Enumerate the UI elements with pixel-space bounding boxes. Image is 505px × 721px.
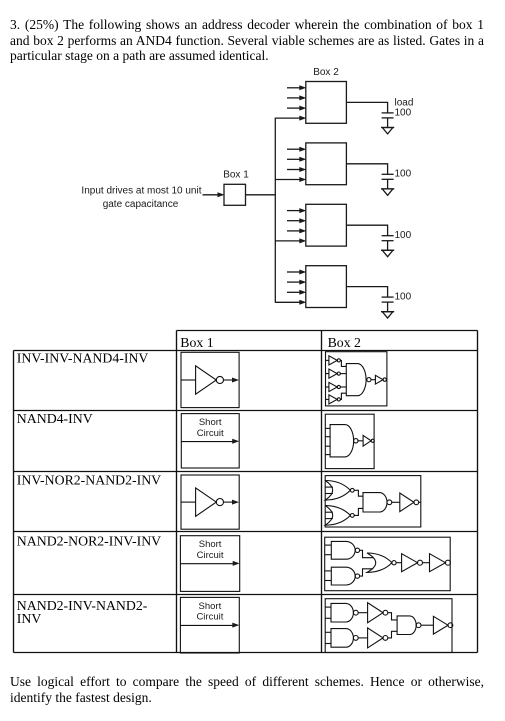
svg-text:Short: Short — [199, 539, 222, 550]
input stubs NAND2 bottom row4 — [325, 571, 332, 581]
row label INV-INV-NAND4-INV — [17, 350, 149, 365]
wire bus branch into unit 3 — [275, 238, 306, 243]
wire capacitor to ground unit 4 — [387, 302, 389, 312]
box B2 unit 2 — [306, 143, 347, 185]
ground symbol unit 1 — [381, 128, 394, 134]
wire NAND2 top to inverter top row5 — [358, 612, 367, 614]
inverter input 3 row1 — [326, 382, 341, 391]
wire input stub 3 of unit 2 — [287, 167, 306, 172]
svg-text:INV-INV-NAND4-INV: INV-INV-NAND4-INV — [17, 350, 149, 365]
inverter input 1 row1 — [326, 356, 341, 365]
wire NAND2 to inverter row3 — [392, 501, 400, 503]
inverter in row3 Box1 (INV) — [181, 488, 239, 516]
wire bus branch into unit 1 — [275, 116, 306, 121]
wire NAND2 top to NOR2 row4 — [360, 550, 374, 557]
input stubs NAND4 row2 — [325, 428, 330, 454]
svg-text:100: 100 — [395, 292, 412, 303]
box B2 unit 1 — [306, 82, 347, 124]
wire inv3 to NAND4 row1 — [340, 386, 346, 388]
inner box row2 Box2 — [325, 414, 374, 468]
NAND2 gate top row5 — [331, 603, 358, 622]
wire NAND2 bottom to NOR2 row4 — [360, 569, 374, 576]
wire short-circuit arrow in row5 Box1 (short circuit) — [180, 623, 239, 628]
svg-text:INV: INV — [17, 611, 42, 626]
label Short Circuit in row4 Box1 (short circuit) — [197, 539, 224, 561]
output inverter row2 — [363, 435, 374, 446]
wire inverter1 to inverter2 row4 — [423, 562, 430, 564]
input stubs NAND2 top row4 — [325, 545, 332, 555]
ground symbol unit 4 — [381, 312, 394, 318]
wire inverter bottom to output NAND2 row5 — [388, 631, 397, 638]
svg-text:Box 2: Box 2 — [328, 335, 361, 350]
bottom paragraph — [10, 674, 484, 705]
wire inverter top to output NAND2 row5 — [388, 613, 397, 620]
wire output of unit 1 to load — [346, 102, 387, 112]
value label 100 unit 2 — [395, 169, 412, 180]
label input drive note — [81, 185, 201, 210]
output inverter row3 — [400, 493, 421, 512]
svg-text:100: 100 — [395, 169, 412, 180]
wire capacitor to ground unit 3 — [387, 241, 389, 251]
box B1 — [224, 184, 246, 205]
wire NAND4 to output inverter row1 — [371, 379, 375, 381]
value label 100 unit 1 — [395, 107, 412, 118]
wire capacitor to ground unit 1 — [387, 118, 389, 128]
NAND4 gate row2 — [330, 425, 358, 457]
box B2 unit 4 — [306, 266, 347, 308]
wire input stub 2 of unit 4 — [287, 280, 306, 285]
wire NOR2 to inverter1 row4 — [396, 562, 402, 564]
wire NOR2 bottom to NAND2 row3 — [354, 508, 363, 515]
svg-text:Circuit: Circuit — [197, 550, 224, 561]
svg-text:Circuit: Circuit — [197, 428, 224, 439]
value label 100 unit 3 — [395, 230, 412, 241]
ground symbol unit 2 — [381, 189, 394, 195]
row label NAND2-INV-NAND2- — [17, 598, 148, 626]
inverter1 row4 — [402, 554, 423, 572]
input stubs NAND2 top row5 — [325, 607, 331, 618]
wire Box1 output to bus — [246, 194, 276, 196]
wire input stub 1 of unit 4 — [287, 270, 306, 275]
svg-text:Box 2: Box 2 — [313, 67, 339, 78]
inner box row2 Box1 (short circuit) — [181, 414, 239, 468]
input stubs NOR2 bottom row3 — [325, 512, 333, 518]
value label load — [395, 97, 414, 108]
inner box row4 Box2 — [325, 537, 451, 591]
inner box row5 Box2 — [325, 599, 452, 653]
svg-text:Short: Short — [199, 417, 222, 428]
svg-text:100: 100 — [395, 230, 412, 241]
label Box 1 — [223, 170, 249, 181]
NAND2 gate row3 — [363, 493, 392, 512]
svg-text:Short: Short — [199, 601, 222, 612]
NAND4 gate row1 — [346, 364, 371, 396]
output inverter row1 — [375, 375, 387, 384]
wire output of unit 4 to load — [346, 287, 387, 297]
inner box row1 Box1 (INV) — [181, 352, 239, 407]
wire input stub 3 of unit 1 — [287, 106, 306, 111]
wire vertical bus — [274, 118, 276, 303]
inverter in row1 Box1 (INV) — [181, 366, 239, 394]
wire output of unit 3 to load — [346, 225, 387, 235]
wire input stub 1 of unit 1 — [287, 85, 306, 90]
NOR2 gate top row3 — [325, 481, 354, 501]
svg-text:Box 1: Box 1 — [223, 170, 249, 181]
svg-text:gate capacitance: gate capacitance — [103, 199, 179, 210]
wire inv2 to NAND4 row1 — [340, 373, 346, 375]
svg-text:NAND2-NOR2-INV-INV: NAND2-NOR2-INV-INV — [17, 534, 161, 549]
inner box row4 Box1 (short circuit) — [180, 536, 239, 592]
table grid — [14, 331, 478, 653]
NAND2 output gate row5 — [397, 616, 421, 635]
input stubs NAND2 bottom row5 — [325, 632, 331, 643]
inverter top row5 — [368, 603, 388, 623]
svg-text:INV-NOR2-NAND2-INV: INV-NOR2-NAND2-INV — [17, 472, 161, 487]
capacitor load of unit 4 (100) — [382, 297, 394, 302]
capacitor load of unit 1 (100) — [382, 113, 394, 118]
top paragraph — [10, 17, 484, 63]
wire bus branch into unit 2 — [275, 177, 306, 182]
inverter bottom row5 — [368, 628, 388, 648]
wire capacitor to ground unit 2 — [387, 179, 389, 189]
wire NAND2 output to final inverter row5 — [421, 624, 433, 626]
ground symbol unit 3 — [381, 250, 394, 256]
row label NAND2-NOR2-INV-INV — [17, 534, 161, 549]
wire inv4 to NAND4 row1 — [340, 393, 346, 399]
wire input stub 1 of unit 2 — [287, 147, 306, 152]
inverter input 4 row1 — [326, 395, 341, 404]
NOR2 gate bottom row3 — [325, 506, 354, 526]
inner box row3 Box2 — [325, 476, 421, 527]
row label INV-NOR2-NAND2-INV — [17, 472, 161, 487]
svg-text:Circuit: Circuit — [196, 612, 223, 623]
wire input stub 3 of unit 4 — [287, 290, 306, 295]
wire NAND4 to inverter row2 — [358, 440, 363, 442]
capacitor load of unit 3 (100) — [382, 236, 394, 241]
wire input stub 2 of unit 1 — [287, 95, 306, 100]
wire NOR2 top to NAND2 row3 — [354, 490, 363, 496]
inverter2 row4 — [430, 554, 451, 572]
input stubs NOR2 top row3 — [325, 487, 333, 493]
NAND2 gate bottom row4 — [331, 567, 359, 585]
svg-text:Box 1: Box 1 — [180, 335, 213, 350]
inverter input 2 row1 — [326, 369, 341, 378]
label Short Circuit in row2 Box1 (short circuit) — [197, 417, 224, 439]
inner box row3 Box1 (INV) — [181, 475, 239, 529]
capacitor load of unit 2 (100) — [382, 174, 394, 179]
wire short-circuit arrow in row2 Box1 (short circuit) — [181, 439, 239, 444]
wire input stub 2 of unit 3 — [287, 218, 306, 223]
final inverter row5 — [433, 616, 452, 634]
input arrow into Box 1 — [203, 192, 225, 197]
svg-text:Input drives at most 10 unit: Input drives at most 10 unit — [81, 185, 201, 196]
svg-text:NAND4-INV: NAND4-INV — [17, 411, 93, 426]
svg-text:100: 100 — [395, 107, 412, 118]
wire input stub 1 of unit 3 — [287, 208, 306, 213]
label Box 2 (column title) — [313, 67, 339, 78]
header label Box 1 — [180, 335, 213, 350]
NAND2 gate top row4 — [331, 541, 359, 559]
wire input stub 3 of unit 3 — [287, 228, 306, 233]
wire input stub 2 of unit 2 — [287, 157, 306, 162]
wire output of unit 2 to load — [346, 164, 387, 174]
header label Box 2 — [328, 335, 361, 350]
wire inv1 to NAND4 row1 — [340, 360, 346, 366]
box B2 unit 3 — [306, 204, 347, 246]
inner box row5 Box1 (short circuit) — [180, 597, 239, 653]
label Short Circuit in row5 Box1 (short circuit) — [196, 601, 223, 623]
NOR2 gate row4 — [367, 553, 396, 572]
NAND2 gate bottom row5 — [331, 629, 358, 648]
wire short-circuit arrow in row4 Box1 (short circuit) — [180, 561, 239, 566]
wire NAND2 bottom to inverter bottom row5 — [358, 637, 367, 639]
wire bus branch into unit 4 — [275, 300, 306, 305]
inner box row1 Box2 — [326, 352, 387, 406]
value label 100 unit 4 — [395, 292, 412, 303]
row label NAND4-INV — [17, 411, 93, 426]
